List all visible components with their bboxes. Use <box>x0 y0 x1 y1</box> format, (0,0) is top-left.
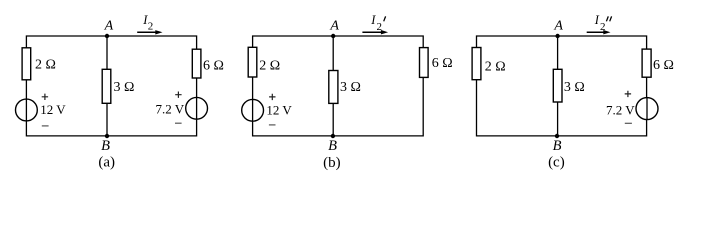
svg-text:A: A <box>104 19 114 34</box>
svg-text:(c): (c) <box>548 154 565 170</box>
polarity + of 12V (b) <box>269 94 275 100</box>
wire: middle branch A-B (c) <box>557 36 559 136</box>
svg-text:3 Ω: 3 Ω <box>114 80 135 95</box>
svg-text:2: 2 <box>377 21 383 33</box>
svg-text:I: I <box>370 13 376 27</box>
svg-text:B: B <box>553 138 562 154</box>
polarity − of 7.2V (a) <box>175 122 182 124</box>
svg-text:2 Ω: 2 Ω <box>259 59 280 74</box>
resistor 3Ω (a) <box>102 69 111 103</box>
polarity − of 7.2V (c) <box>625 122 632 124</box>
svg-text:7.2 V: 7.2 V <box>156 102 185 117</box>
svg-text:3 Ω: 3 Ω <box>340 80 361 95</box>
node A (b) <box>331 34 335 38</box>
wire: outer loop (b) <box>253 36 424 136</box>
svg-text:(a): (a) <box>98 155 115 171</box>
svg-text:12 V: 12 V <box>40 102 66 117</box>
resistor 2Ω (c) <box>472 48 481 80</box>
wire: outer loop (c) <box>477 36 647 136</box>
resistor 3Ω (b) <box>329 71 338 104</box>
svg-text:6 Ω: 6 Ω <box>653 58 674 73</box>
current arrow I2' (b) <box>362 30 388 34</box>
current arrow I2'' (c) <box>587 30 611 34</box>
resistor 3Ω (c) <box>553 69 562 102</box>
svg-text:2: 2 <box>600 21 606 33</box>
polarity + of 7.2V (a) <box>175 92 181 98</box>
polarity + of 12V (a) <box>42 94 48 100</box>
svg-text:6 Ω: 6 Ω <box>432 56 453 71</box>
resistor 2Ω (a) <box>22 48 31 80</box>
svg-text:(b): (b) <box>323 155 341 171</box>
svg-text:2 Ω: 2 Ω <box>35 58 56 73</box>
voltage source 7.2V (a) <box>186 97 208 119</box>
node B (c) <box>555 134 559 138</box>
node A (a) <box>105 34 109 38</box>
svg-text:3 Ω: 3 Ω <box>564 80 585 95</box>
svg-text:B: B <box>101 138 110 154</box>
current arrow I2 (a) <box>137 30 162 34</box>
resistor 2Ω (b) <box>248 47 257 77</box>
node B (b) <box>331 134 335 138</box>
wire: outer loop (a) <box>26 36 196 136</box>
polarity − of 12V (b) <box>269 124 276 126</box>
node A (c) <box>555 34 559 38</box>
svg-text:6 Ω: 6 Ω <box>203 59 224 74</box>
voltage source 7.2V (c) <box>636 98 658 120</box>
resistor 6Ω (b) <box>420 48 429 78</box>
svg-text:12 V: 12 V <box>266 102 292 117</box>
wire: middle branch A-B (b) <box>332 36 334 136</box>
wire: middle branch A-B (a) <box>106 36 108 136</box>
polarity − of 12V (a) <box>42 125 49 127</box>
svg-text:A: A <box>553 19 563 34</box>
svg-text:A: A <box>329 19 339 34</box>
resistor 6Ω (a) <box>192 49 201 78</box>
svg-text:B: B <box>328 138 337 154</box>
svg-text:2: 2 <box>148 21 154 33</box>
svg-text:7.2 V: 7.2 V <box>606 103 635 118</box>
voltage source 12V (a) <box>16 99 38 121</box>
resistor 6Ω (c) <box>642 49 651 77</box>
node B (a) <box>105 134 109 138</box>
polarity + of 7.2V (c) <box>625 91 631 97</box>
svg-text:2 Ω: 2 Ω <box>485 60 506 75</box>
voltage source 12V (b) <box>242 99 264 121</box>
svg-text:I: I <box>594 13 600 27</box>
